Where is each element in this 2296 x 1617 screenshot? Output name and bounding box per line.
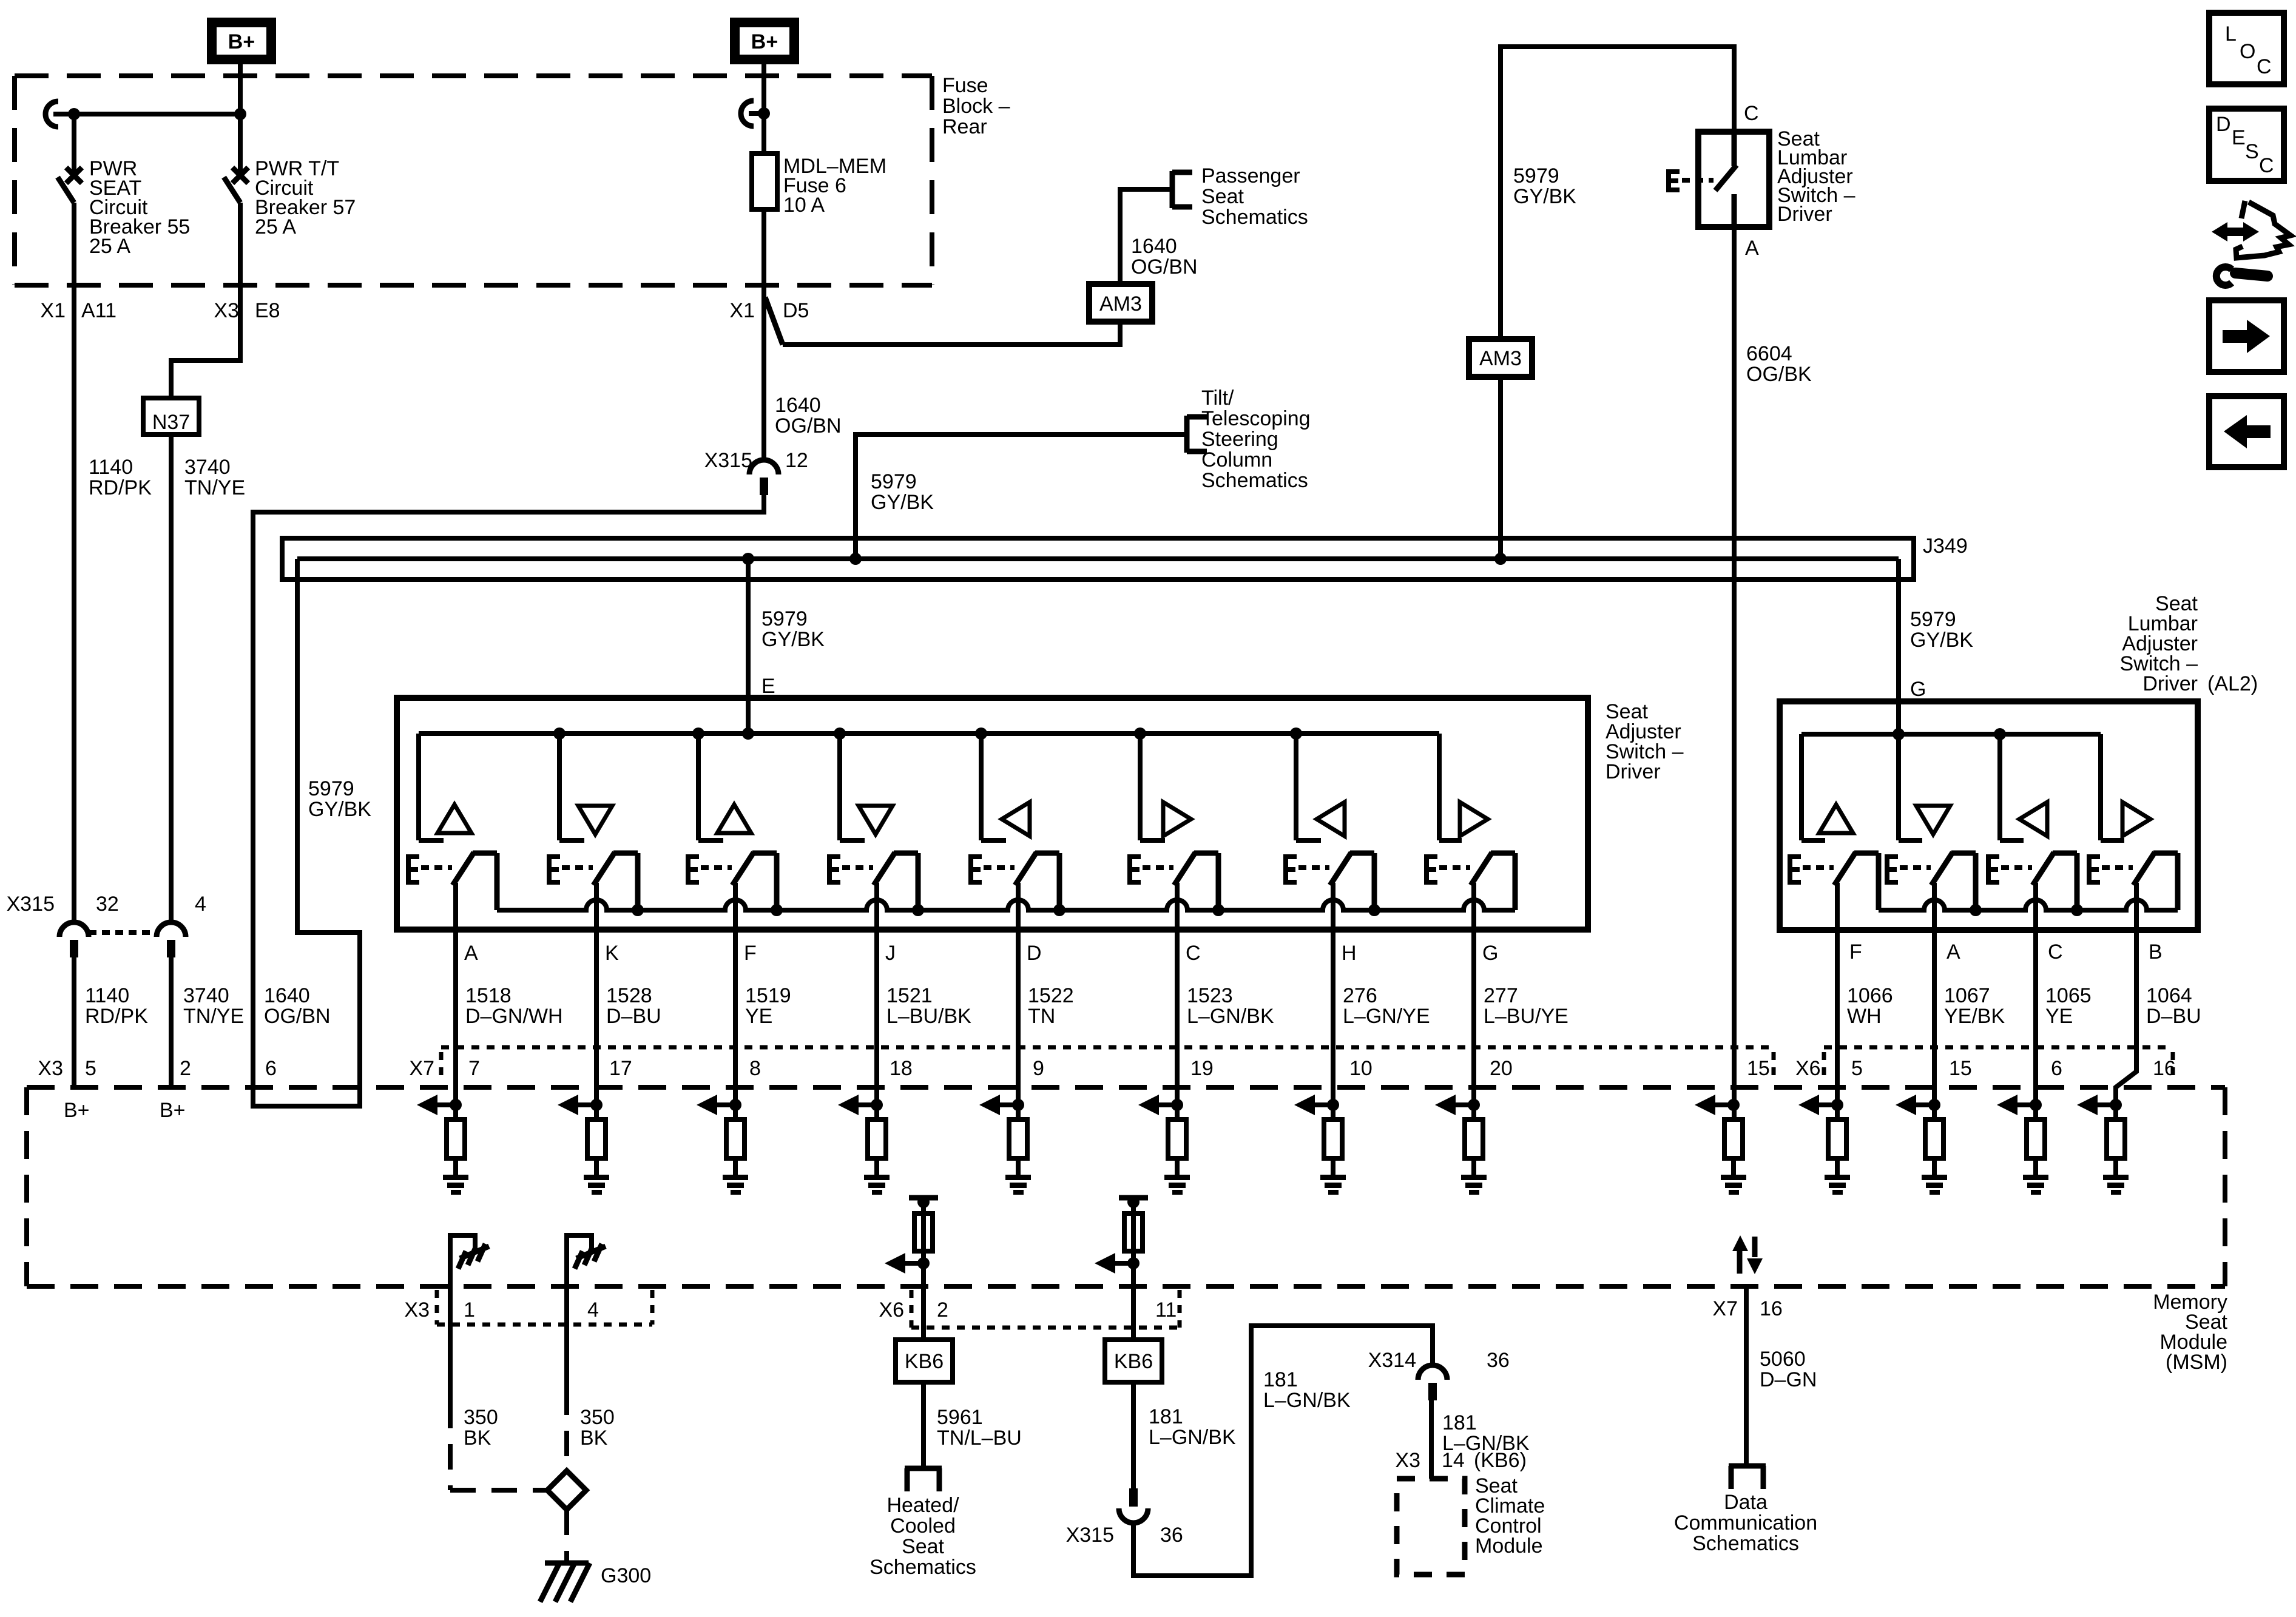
lumbar switch internals	[1732, 132, 1737, 166]
svg-text:C: C	[2048, 940, 2063, 964]
connector X315 pin 12	[749, 460, 778, 474]
wire E drop to driver switch	[746, 559, 751, 734]
svg-text:11: 11	[1155, 1298, 1177, 1322]
svg-text:181: 181	[1263, 1368, 1298, 1391]
icon box arrow right	[2209, 300, 2284, 372]
MSM input resistor to ground (x=3188)	[1928, 1099, 1940, 1111]
svg-text:36: 36	[1160, 1524, 1183, 1547]
svg-text:KB6: KB6	[905, 1350, 944, 1373]
pin K output wire	[594, 883, 599, 1119]
wire hook (continuation curl)	[46, 101, 58, 127]
svg-text:Column: Column	[1201, 448, 1272, 471]
svg-text:8: 8	[749, 1057, 761, 1080]
svg-text:TN/L–BU: TN/L–BU	[937, 1426, 1022, 1450]
connector X315 pin 36	[1129, 1488, 1138, 1507]
connector X6 dotted line (bottom)	[911, 1326, 1180, 1330]
svg-text:X315: X315	[7, 893, 55, 916]
svg-text:BK: BK	[580, 1426, 608, 1450]
node junction dot	[68, 108, 80, 120]
off-page bracket Passenger Seat Schematics	[1170, 171, 1175, 208]
svg-text:Communication: Communication	[1674, 1511, 1817, 1534]
wire to breaker 55	[72, 114, 76, 172]
svg-text:G: G	[1482, 942, 1498, 965]
svg-text:A: A	[1745, 237, 1759, 260]
AL2 switch unit A	[1893, 728, 1905, 740]
svg-text:Steering: Steering	[1201, 428, 1278, 451]
connector AM3 (2)	[1469, 339, 1532, 377]
svg-text:GY/BK: GY/BK	[871, 491, 934, 514]
wire N37 down (3740 TN/YE)	[169, 434, 174, 923]
splice diamond	[547, 1471, 586, 1510]
svg-text:D5: D5	[783, 299, 809, 322]
svg-text:1066: 1066	[1847, 984, 1893, 1007]
svg-text:1528: 1528	[606, 984, 652, 1007]
switch unit G	[1437, 734, 1442, 840]
svg-text:(AL2): (AL2)	[2207, 672, 2258, 695]
svg-text:1521: 1521	[886, 984, 933, 1007]
svg-text:25 A: 25 A	[89, 235, 130, 258]
MSM input resistor to ground (x=1445)	[871, 1099, 883, 1111]
svg-text:14: 14	[1442, 1449, 1465, 1472]
svg-text:25 A: 25 A	[255, 215, 296, 238]
svg-text:Module: Module	[1475, 1534, 1543, 1558]
wire tilt branch	[856, 434, 1187, 559]
svg-text:1065: 1065	[2045, 984, 2092, 1007]
svg-text:1064: 1064	[2146, 984, 2192, 1007]
svg-text:Driver: Driver	[1777, 203, 1832, 226]
svg-text:1640: 1640	[264, 984, 310, 1007]
svg-text:B+: B+	[751, 30, 778, 53]
svg-text:K: K	[605, 942, 619, 965]
wire AM3 up to passenger bracket	[1120, 189, 1172, 284]
svg-text:C: C	[1744, 102, 1759, 125]
svg-text:OG/BN: OG/BN	[775, 414, 842, 437]
icon adjust (hand with wrench)	[2212, 222, 2259, 241]
svg-text:D–GN/WH: D–GN/WH	[465, 1005, 563, 1028]
fuse block - rear dashed box	[15, 73, 932, 78]
svg-text:181: 181	[1442, 1411, 1477, 1434]
MSM input resistor to ground (x=751)	[450, 1099, 462, 1111]
svg-text:X1: X1	[729, 299, 755, 322]
svg-text:2: 2	[937, 1298, 948, 1322]
switch common bottom wire	[497, 900, 1515, 910]
MSM internal output to X6 pin 2	[909, 1195, 938, 1201]
svg-text:D: D	[2216, 113, 2231, 136]
svg-text:X315: X315	[704, 449, 752, 472]
switch unit D	[975, 727, 987, 740]
wire 5979 inner bus	[297, 556, 1899, 561]
svg-text:GY/BK: GY/BK	[1513, 185, 1576, 208]
wire 5961 TN/L-BU	[921, 1382, 926, 1468]
svg-text:276: 276	[1343, 984, 1377, 1007]
AL2 switch unit B	[2098, 734, 2103, 840]
svg-text:Data: Data	[1724, 1491, 1768, 1514]
svg-text:X314: X314	[1368, 1349, 1416, 1372]
wire 181 L-GN/BK loop to X314	[1133, 1326, 1433, 1576]
ground G300	[545, 1561, 589, 1566]
svg-text:E: E	[2232, 126, 2246, 149]
MSM input resistor to ground (x=2197)	[1327, 1099, 1339, 1111]
wire hook 2	[741, 101, 754, 126]
AL2 switch unit F	[1799, 734, 1804, 840]
switch unit K	[553, 727, 566, 740]
MSM input resistor to ground (x=2429)	[1468, 1099, 1480, 1111]
svg-text:WH: WH	[1847, 1005, 1882, 1028]
svg-text:L–GN/BK: L–GN/BK	[1187, 1005, 1274, 1028]
pin F output wire	[733, 883, 738, 1119]
svg-text:3740: 3740	[184, 456, 231, 479]
svg-text:X3: X3	[38, 1057, 63, 1080]
MSM internal output to X6 pin 11	[1119, 1195, 1148, 1201]
svg-text:1140: 1140	[89, 456, 133, 479]
svg-text:J349: J349	[1923, 535, 1968, 558]
MSM input resistor to ground (x=1678)	[1012, 1099, 1024, 1111]
svg-text:18: 18	[890, 1057, 913, 1080]
svg-text:TN/YE: TN/YE	[184, 476, 245, 499]
node dot E-drop	[742, 553, 754, 565]
svg-text:350: 350	[464, 1406, 498, 1429]
svg-text:TN: TN	[1028, 1005, 1055, 1028]
svg-text:15: 15	[1747, 1057, 1770, 1080]
wire X315/12 down and left to MSM pin 6 channel	[253, 495, 764, 1106]
svg-text:X7: X7	[409, 1057, 434, 1080]
svg-text:B: B	[2149, 940, 2163, 964]
switch unit C	[1134, 727, 1146, 740]
wire AM3(2) down to J349 bus	[1498, 377, 1503, 559]
svg-text:19: 19	[1190, 1057, 1214, 1080]
switch unit A	[416, 734, 421, 840]
svg-text:5979: 5979	[308, 777, 354, 800]
svg-text:10: 10	[1349, 1057, 1373, 1080]
svg-text:1140: 1140	[85, 984, 129, 1007]
svg-text:AM3: AM3	[1099, 292, 1142, 316]
pin J output wire	[874, 883, 879, 1119]
svg-text:L–BU/BK: L–BU/BK	[886, 1005, 971, 1028]
svg-text:GY/BK: GY/BK	[308, 798, 371, 821]
svg-text:5: 5	[85, 1057, 96, 1080]
svg-text:277: 277	[1484, 984, 1518, 1007]
svg-text:D: D	[1027, 942, 1042, 965]
svg-text:5979: 5979	[871, 470, 917, 493]
svg-text:RD/PK: RD/PK	[89, 476, 152, 499]
svg-text:15: 15	[1949, 1057, 1972, 1080]
svg-text:Seat: Seat	[902, 1535, 944, 1558]
wire to G300	[564, 1510, 569, 1563]
svg-text:D–BU: D–BU	[2146, 1005, 2201, 1028]
connector X7 dotted line	[441, 1045, 1774, 1050]
wire 6604 OG/BK down	[1732, 227, 1737, 1119]
wire 350 BK (pin 4)	[564, 1286, 569, 1389]
MSM input resistor to ground (x=3355)	[2030, 1099, 2042, 1111]
svg-text:4: 4	[587, 1298, 599, 1322]
splice KB6 (2)	[1105, 1340, 1162, 1382]
connector X3 dotted line (bottom)	[437, 1323, 652, 1327]
svg-text:Seat: Seat	[1201, 185, 1244, 208]
svg-text:3740: 3740	[183, 984, 229, 1007]
splice KB6 (1)	[896, 1340, 953, 1382]
svg-text:7: 7	[468, 1057, 480, 1080]
power symbol B+ (battery feed 1)	[212, 22, 271, 59]
svg-text:A: A	[464, 942, 478, 965]
circuit breaker 57	[232, 167, 248, 183]
power symbol B+ (battery feed 2)	[735, 22, 794, 59]
AL2 switch unit C	[1994, 728, 2006, 740]
svg-text:1519: 1519	[745, 984, 791, 1007]
svg-text:OG/BN: OG/BN	[1131, 255, 1198, 279]
MSM input resistor to ground (x=1212)	[729, 1099, 741, 1111]
svg-text:E8: E8	[255, 299, 280, 322]
svg-text:1: 1	[464, 1298, 475, 1322]
serial data arrows	[1737, 1249, 1743, 1274]
svg-text:GY/BK: GY/BK	[1910, 629, 1973, 652]
icon box arrow left	[2209, 396, 2284, 467]
svg-text:OG/BK: OG/BK	[1746, 363, 1812, 386]
svg-text:20: 20	[1490, 1057, 1513, 1080]
MSM input resistor to ground (x=3487)	[2110, 1099, 2122, 1111]
svg-text:5979: 5979	[761, 607, 808, 630]
chassis ground (MSM internal, pin 1)	[450, 1235, 475, 1286]
connector X315 pins 32 4	[59, 922, 89, 937]
svg-text:5: 5	[1851, 1057, 1863, 1080]
wire fuse down to X1 D5	[761, 209, 766, 460]
seat lumbar adjuster switch - driver (AL2) box	[1780, 701, 2198, 930]
svg-text:KB6: KB6	[1114, 1350, 1153, 1373]
svg-text:L–GN/BK: L–GN/BK	[1263, 1389, 1351, 1412]
svg-text:5961: 5961	[937, 1406, 983, 1429]
wires X315 to MSM	[72, 957, 76, 1087]
svg-text:Tilt/: Tilt/	[1201, 387, 1234, 410]
svg-text:5979: 5979	[1513, 164, 1559, 187]
svg-text:6: 6	[265, 1057, 277, 1080]
MSM input resistor to ground (x=2857)	[1727, 1099, 1740, 1111]
svg-text:L–BU/YE: L–BU/YE	[1484, 1005, 1568, 1028]
wire G drop to lumbar switch AL2	[1896, 559, 1901, 734]
off-page bracket Tilt/Telescoping	[1184, 416, 1190, 453]
svg-text:32: 32	[96, 893, 119, 916]
wire breaker55 down (1140 RD/PK)	[72, 203, 76, 923]
svg-text:X1: X1	[40, 299, 66, 322]
svg-text:YE: YE	[745, 1005, 772, 1028]
wire 5060 D-GN	[1744, 1286, 1749, 1466]
svg-text:D–GN: D–GN	[1760, 1368, 1817, 1391]
svg-text:Schematics: Schematics	[1201, 206, 1308, 229]
wire 181 L-GN/BK from KB6	[1131, 1382, 1136, 1488]
AL2 pin output wires	[1835, 883, 1840, 1119]
svg-text:X7: X7	[1712, 1297, 1738, 1320]
svg-text:12: 12	[785, 449, 808, 472]
svg-text:X3: X3	[1395, 1449, 1420, 1472]
svg-text:F: F	[744, 942, 757, 965]
svg-text:5060: 5060	[1760, 1348, 1806, 1371]
seat climate control module dashed box	[1397, 1479, 1465, 1575]
svg-text:C: C	[2257, 55, 2272, 78]
svg-text:1640: 1640	[775, 394, 821, 417]
svg-text:10 A: 10 A	[783, 194, 825, 217]
svg-text:1067: 1067	[1944, 984, 1990, 1007]
wire horizontal to AM3 bottom	[783, 322, 1120, 345]
svg-text:Driver: Driver	[1606, 760, 1661, 783]
svg-text:A11: A11	[81, 299, 116, 322]
off-page bracket Data Communication Schematics	[1729, 1463, 1766, 1469]
svg-text:9: 9	[1033, 1057, 1044, 1080]
svg-text:X315: X315	[1066, 1524, 1114, 1547]
connector X6 dotted line (top)	[1824, 1045, 2173, 1050]
svg-text:17: 17	[609, 1057, 632, 1080]
svg-text:2: 2	[180, 1057, 191, 1080]
svg-text:Schematics: Schematics	[1201, 469, 1308, 492]
svg-text:X3: X3	[214, 299, 239, 322]
memory seat module (MSM) dashed box	[27, 1085, 2225, 1090]
svg-text:B+: B+	[64, 1099, 90, 1122]
circuit breaker 55	[66, 167, 82, 183]
wire breaker57 down with jog to N37	[171, 203, 240, 398]
svg-text:5979: 5979	[1910, 608, 1956, 631]
chassis ground (MSM internal, pin 4)	[567, 1235, 592, 1286]
svg-text:1518: 1518	[465, 984, 512, 1007]
wire B+1 down	[238, 64, 243, 172]
svg-text:B+: B+	[228, 30, 255, 53]
switch unit J	[834, 727, 846, 740]
svg-text:36: 36	[1487, 1349, 1510, 1372]
svg-text:(KB6): (KB6)	[1474, 1449, 1527, 1472]
svg-text:B+: B+	[160, 1099, 186, 1122]
svg-text:YE/BK: YE/BK	[1944, 1005, 2005, 1028]
seat adjuster switch - driver box	[397, 698, 1588, 930]
switch unit F	[692, 727, 704, 740]
svg-text:L: L	[2225, 22, 2237, 46]
svg-text:O: O	[2240, 40, 2255, 63]
svg-text:X3: X3	[404, 1298, 430, 1322]
fuse MDL-MEM Fuse 6	[752, 154, 777, 209]
svg-text:Passenger: Passenger	[1201, 164, 1300, 187]
svg-text:RD/PK: RD/PK	[85, 1005, 148, 1028]
icon box DESC	[2209, 109, 2284, 181]
svg-text:1523: 1523	[1187, 984, 1233, 1007]
svg-text:6604: 6604	[1746, 342, 1792, 365]
svg-text:TN/YE: TN/YE	[183, 1005, 244, 1028]
connector box N37	[143, 398, 199, 434]
svg-text:G: G	[1910, 678, 1926, 701]
off-page bracket Heated/Cooled Seat Schematics	[905, 1466, 942, 1471]
switch inner feed bus	[419, 731, 1439, 736]
svg-text:L–GN/BK: L–GN/BK	[1149, 1426, 1236, 1449]
svg-text:L–GN/YE: L–GN/YE	[1343, 1005, 1430, 1028]
svg-text:A: A	[1947, 940, 1960, 964]
svg-text:Schematics: Schematics	[1692, 1532, 1799, 1555]
bus J349 outline	[282, 538, 1914, 579]
connector X314 pin 36	[1418, 1365, 1447, 1380]
icon box LOC	[2209, 13, 2284, 84]
svg-text:6: 6	[2051, 1057, 2062, 1080]
svg-text:BK: BK	[464, 1426, 491, 1450]
svg-text:YE: YE	[2045, 1005, 2073, 1028]
svg-text:1522: 1522	[1028, 984, 1074, 1007]
svg-text:F: F	[1849, 940, 1862, 964]
svg-text:X6: X6	[1795, 1057, 1821, 1080]
svg-text:Driver: Driver	[2142, 672, 2198, 695]
wire 5979 from AM3(2) top run	[1501, 47, 1734, 339]
pin A output wire	[453, 883, 458, 1119]
switch unit H	[1290, 727, 1302, 740]
MSM input resistor to ground (x=1940)	[1171, 1099, 1183, 1111]
seat lumbar adjuster switch - driver (top)	[1698, 132, 1769, 227]
svg-text:Block –: Block –	[942, 95, 1010, 118]
svg-text:4: 4	[195, 893, 206, 916]
svg-text:Telescoping: Telescoping	[1201, 407, 1311, 430]
MSM input resistor to ground (x=3028)	[1831, 1099, 1843, 1111]
wire B+2 down	[761, 64, 766, 154]
svg-text:Cooled: Cooled	[890, 1514, 956, 1538]
svg-text:AM3: AM3	[1479, 347, 1522, 370]
svg-text:OG/BN: OG/BN	[264, 1005, 331, 1028]
svg-text:E: E	[761, 675, 775, 698]
svg-text:181: 181	[1149, 1405, 1183, 1428]
svg-text:Schematics: Schematics	[869, 1556, 976, 1579]
svg-text:H: H	[1342, 942, 1357, 965]
svg-text:Fuse: Fuse	[942, 74, 988, 97]
AL2 common bottom wire	[1879, 900, 2178, 910]
svg-text:16: 16	[1760, 1297, 1783, 1320]
svg-text:(MSM): (MSM)	[2166, 1351, 2227, 1374]
pin D output wire	[1016, 883, 1021, 1119]
svg-text:S: S	[2245, 140, 2259, 163]
wire 181 L-GN/BK to seat climate control module	[1429, 1400, 1434, 1479]
wire top horizontal to hook	[53, 112, 240, 116]
wire branch slant to AM3	[765, 297, 783, 345]
pin C output wire	[1175, 883, 1180, 1119]
MSM input resistor to ground (x=983)	[590, 1099, 603, 1111]
svg-text:J: J	[885, 942, 896, 965]
connector AM3 (1)	[1089, 284, 1152, 322]
svg-text:D–BU: D–BU	[606, 1005, 661, 1028]
svg-text:1640: 1640	[1131, 235, 1177, 258]
svg-text:16: 16	[2153, 1057, 2176, 1080]
svg-text:C: C	[1186, 942, 1201, 965]
svg-text:Rear: Rear	[942, 115, 987, 138]
svg-text:350: 350	[580, 1406, 615, 1429]
pin H output wire	[1331, 883, 1335, 1119]
svg-text:N37: N37	[152, 411, 190, 434]
AL2 inner feed bus	[1801, 732, 2101, 737]
svg-text:X6: X6	[879, 1298, 904, 1322]
svg-text:GY/BK: GY/BK	[761, 628, 825, 651]
node dot at hook2	[758, 107, 770, 120]
svg-text:Heated/: Heated/	[886, 1494, 959, 1517]
wire 350 BK (pin 1)	[448, 1286, 453, 1403]
pin G output wire	[1471, 883, 1476, 1119]
svg-text:G300: G300	[601, 1564, 651, 1587]
svg-text:C: C	[2259, 154, 2274, 177]
